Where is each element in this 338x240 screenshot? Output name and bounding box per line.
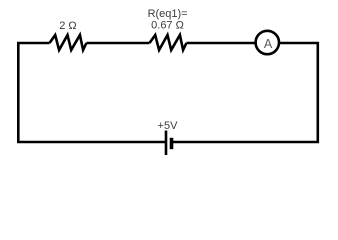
wire: between resistor R1 and resistor R2	[86, 42, 149, 45]
svg-text:0.67 Ω: 0.67 Ω	[151, 20, 184, 32]
resistor R2 (R(eq1)=0.67 ohm) zigzag	[150, 35, 187, 50]
resistor R1 (2 ohm) zigzag	[50, 35, 87, 50]
wire: left side + top-left + bottom-left run to battery	[18, 43, 166, 142]
wire: between resistor R2 and ammeter	[186, 42, 267, 45]
svg-text:A: A	[264, 37, 273, 51]
svg-text:+5V: +5V	[158, 120, 179, 132]
battery V1 positive long plate	[165, 131, 168, 156]
svg-text:R(eq1)=: R(eq1)=	[148, 8, 188, 20]
wire: right side + top-right + bottom-right run from battery	[172, 43, 318, 142]
battery V1 negative short plate	[170, 138, 174, 149]
ammeter A1 circle	[256, 31, 279, 54]
svg-text:2 Ω: 2 Ω	[59, 20, 76, 32]
